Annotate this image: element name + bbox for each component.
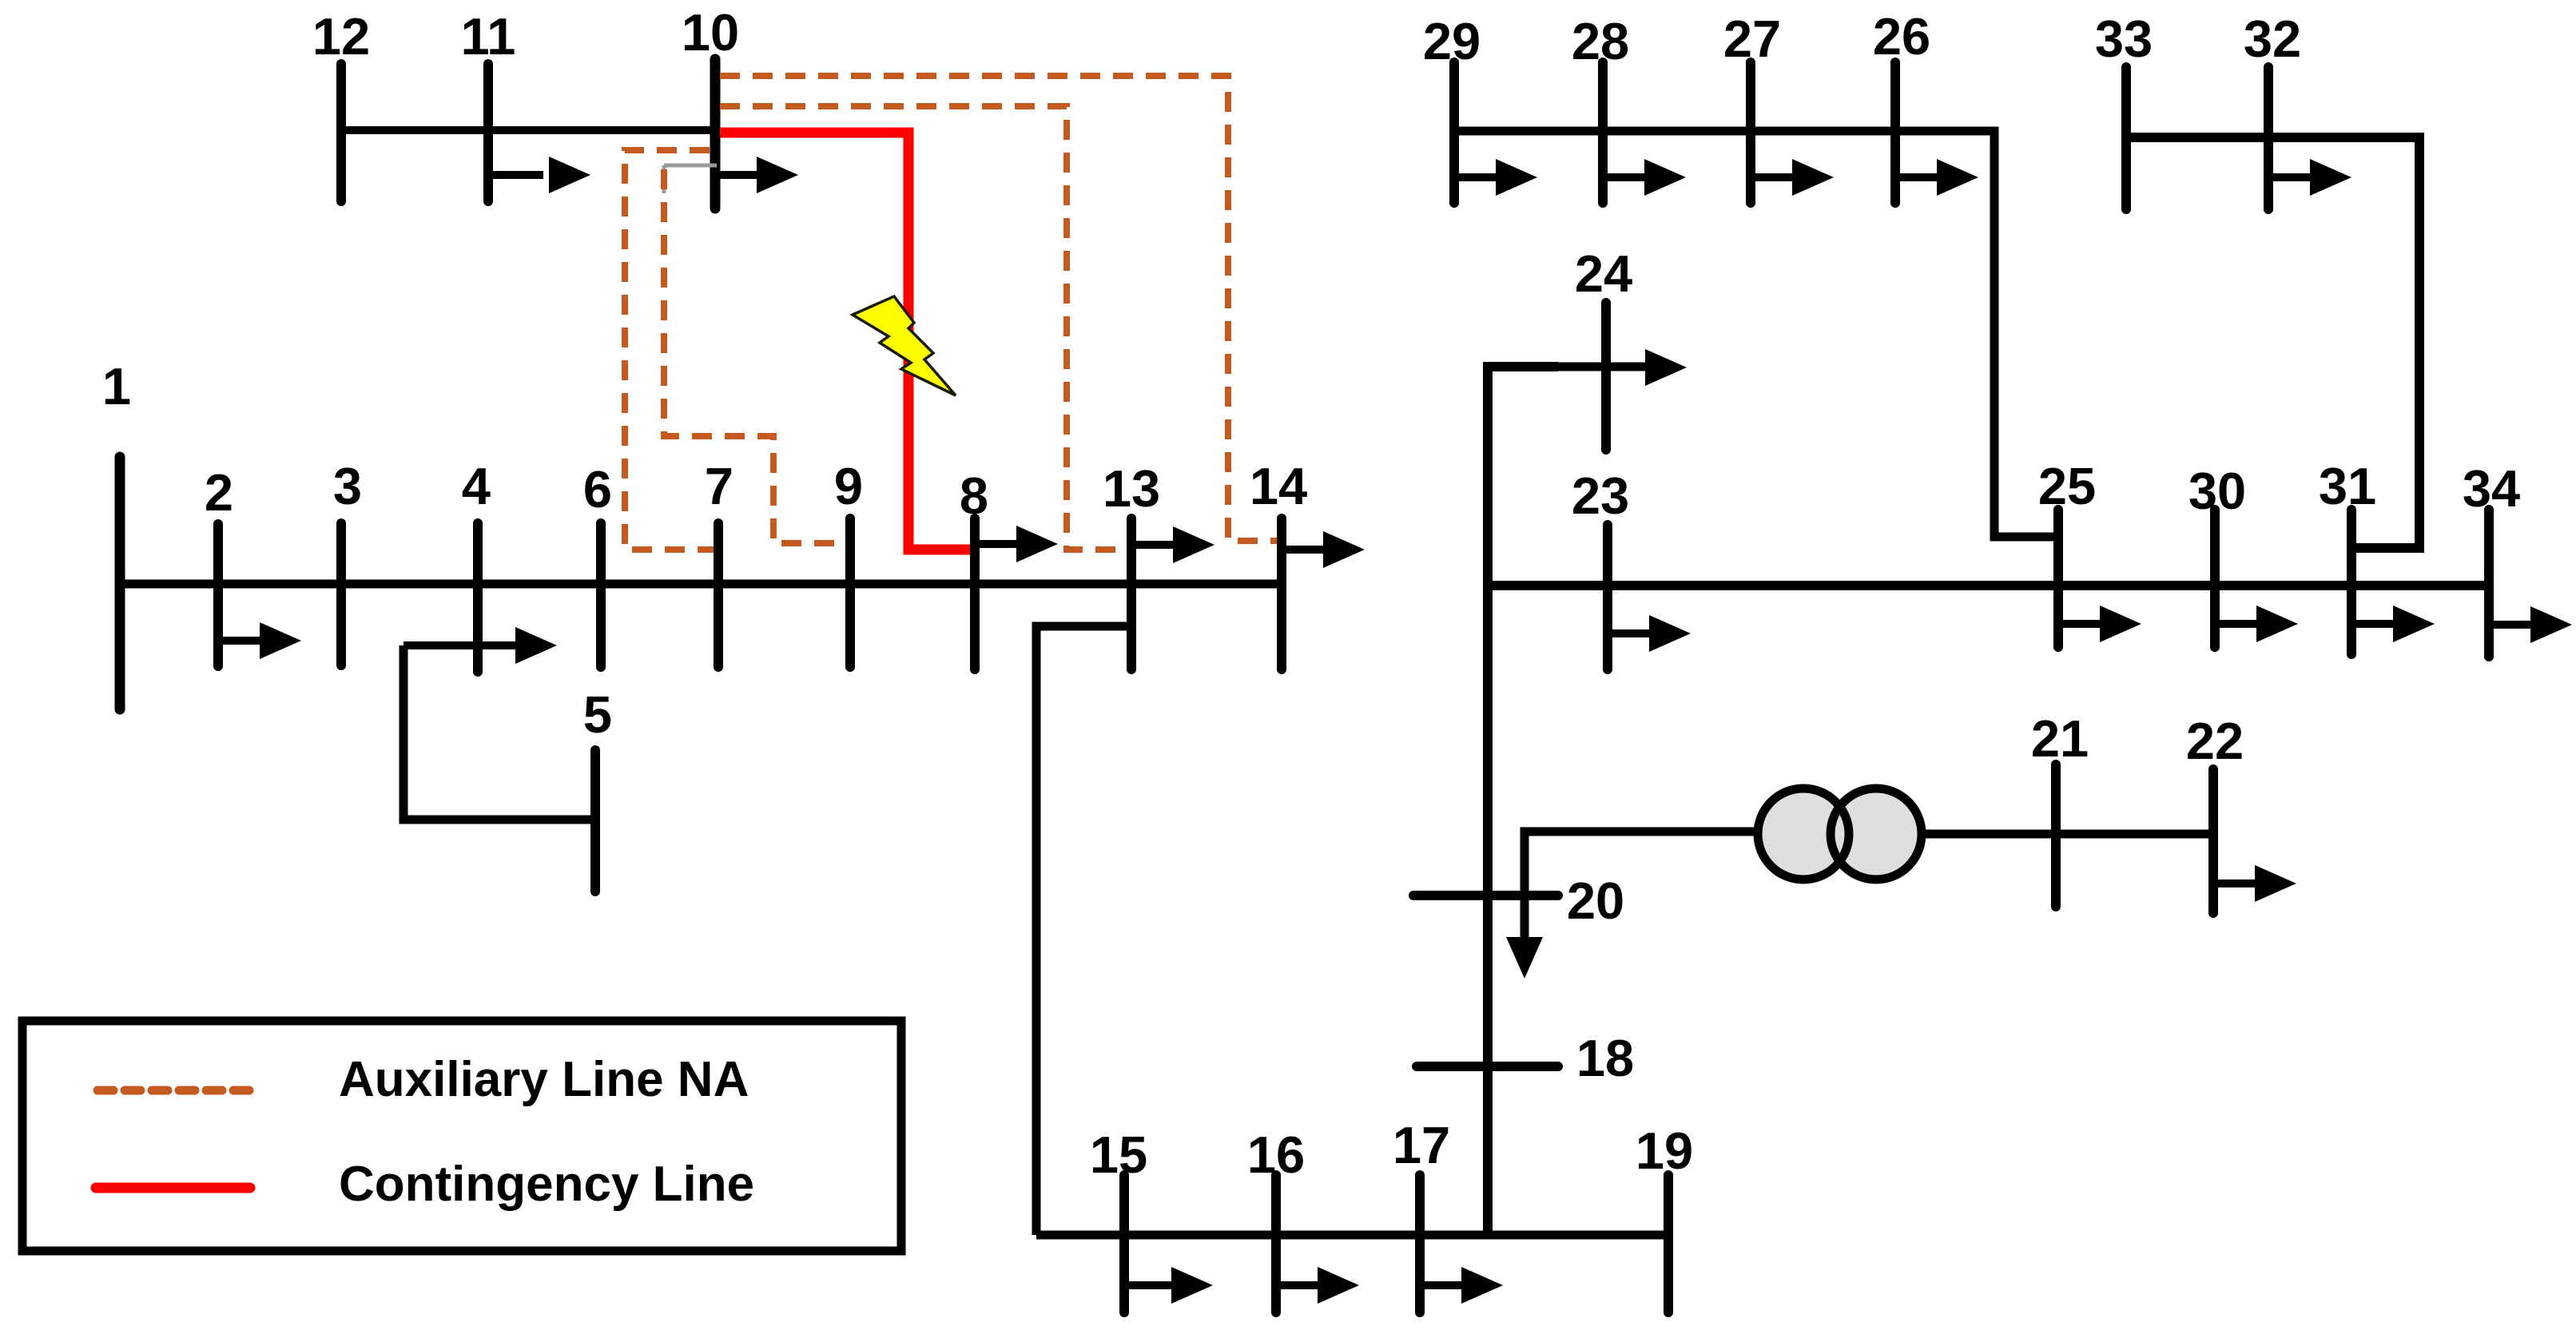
load arrow bus 28 — [1603, 159, 1686, 196]
load arrow bus 30 — [2215, 605, 2298, 642]
load arrow bus 34 — [2489, 606, 2572, 643]
svg-text:Auxiliary Line NA: Auxiliary Line NA — [339, 1052, 749, 1107]
svg-text:13: 13 — [1103, 459, 1160, 518]
riser wire 24-23-17 vertical — [1488, 367, 1558, 1235]
bus 33 — [2121, 67, 2131, 209]
legend auxiliary dashed sample — [97, 1086, 257, 1095]
load arrow bus 14 — [1282, 531, 1365, 568]
svg-text:32: 32 — [2244, 10, 2301, 68]
svg-text:25: 25 — [2038, 457, 2096, 515]
bus 16 — [1271, 1175, 1281, 1312]
load arrow bus 2 — [218, 622, 301, 659]
svg-text:9: 9 — [834, 457, 863, 515]
wire transformer to 21-22 — [1922, 830, 2213, 839]
bus 30 — [2210, 510, 2220, 647]
legend contingency red sample — [96, 1183, 250, 1193]
legend box — [22, 1021, 901, 1251]
svg-text:30: 30 — [2188, 462, 2246, 520]
svg-text:24: 24 — [1575, 244, 1632, 303]
bus 13 — [1127, 518, 1136, 669]
svg-text:29: 29 — [1423, 12, 1481, 70]
svg-text:12: 12 — [312, 7, 370, 66]
bus 10 — [710, 59, 721, 208]
svg-text:2: 2 — [205, 463, 233, 522]
load arrow bus 13 — [1131, 526, 1214, 563]
auxiliary dashed line NA 10-13 (inner) — [720, 106, 1125, 550]
bus 9 — [845, 518, 855, 667]
auxiliary dashed line NA 10-7 — [625, 150, 714, 550]
bus 1 — [115, 457, 125, 709]
load arrow bus 26 — [1895, 159, 1978, 196]
right main bus line 23-34 — [1488, 581, 2489, 590]
svg-text:5: 5 — [583, 685, 612, 744]
load arrow bus 8 — [975, 526, 1058, 562]
load arrow bus 4 with corner — [403, 627, 557, 664]
svg-text:3: 3 — [333, 457, 362, 515]
bus 20 (horizontal bar) — [1413, 891, 1558, 900]
bus 11 — [483, 64, 493, 201]
bus 19 — [1664, 1175, 1673, 1312]
wire bus12-bus11-bus10 top feeder line — [341, 126, 715, 134]
svg-text:11: 11 — [461, 7, 516, 66]
svg-text:1: 1 — [102, 357, 131, 415]
svg-text:23: 23 — [1572, 467, 1629, 525]
bus 31 — [2347, 510, 2356, 654]
load arrow bus 29 — [1454, 159, 1537, 196]
transformer 20-21 circles — [1758, 788, 1922, 879]
svg-text:28: 28 — [1572, 12, 1629, 70]
svg-text:14: 14 — [1250, 457, 1307, 515]
bus 24 — [1601, 303, 1611, 450]
bus 6 — [596, 523, 606, 667]
bus 29 — [1449, 62, 1459, 203]
load arrow bus 23 — [1608, 615, 1691, 652]
bus 32 — [2264, 67, 2273, 209]
bus 3 — [336, 523, 346, 665]
grey artifact near bus 10 — [664, 165, 717, 193]
wire and load arrow bus 24 — [1518, 349, 1687, 386]
bus 12 — [336, 64, 346, 201]
bus 8 — [970, 518, 980, 669]
svg-text:Contingency Line: Contingency Line — [339, 1157, 754, 1212]
svg-text:31: 31 — [2319, 457, 2376, 515]
bus 26 — [1890, 62, 1900, 203]
bus 21 — [2051, 764, 2061, 907]
wire bus29-bus26 top right feeder line — [1454, 131, 2058, 537]
wire 20 to transformer — [1525, 832, 1760, 947]
load arrow bus 15 — [1124, 1267, 1213, 1304]
svg-text:6: 6 — [583, 460, 612, 518]
svg-text:10: 10 — [682, 3, 739, 62]
load arrow bus 22 — [2213, 865, 2296, 902]
bus 28 — [1598, 62, 1608, 203]
svg-text:34: 34 — [2463, 459, 2520, 518]
bus 5 — [590, 750, 600, 891]
bus 23 — [1603, 525, 1612, 669]
wire 4-5 — [403, 645, 595, 820]
svg-text:21: 21 — [2031, 709, 2089, 768]
load arrow bus 31 — [2351, 605, 2435, 642]
auxiliary dashed line NA 10-9 — [664, 169, 845, 543]
svg-text:15: 15 — [1090, 1126, 1147, 1184]
bus 27 — [1746, 62, 1755, 203]
svg-text:17: 17 — [1393, 1116, 1450, 1174]
load arrow bus 10 — [715, 157, 798, 193]
load arrow bus 16 — [1276, 1267, 1359, 1304]
load arrow bus 11 — [488, 157, 590, 193]
main left feeder bus line 1-14 — [120, 580, 1282, 589]
lightning bolt fault symbol — [853, 296, 956, 395]
svg-text:33: 33 — [2095, 10, 2153, 68]
lower feeder bus line 15-19 — [1036, 1231, 1668, 1240]
wire bus33-bus32 line — [2126, 137, 2419, 548]
load arrow bus 17 — [1420, 1267, 1503, 1304]
contingency line 10-8 (red) — [720, 133, 970, 550]
bus 18 (horizontal bar) — [1417, 1062, 1558, 1071]
bus 25 — [2053, 510, 2063, 647]
bus 17 — [1415, 1175, 1425, 1312]
svg-text:19: 19 — [1636, 1122, 1693, 1180]
bus 7 — [714, 523, 723, 667]
bus 4 — [473, 523, 483, 672]
load arrow bus 25 — [2058, 605, 2141, 642]
svg-text:18: 18 — [1576, 1029, 1634, 1087]
bus 14 — [1277, 518, 1286, 669]
bus 22 — [2208, 769, 2218, 913]
load arrow bus 27 — [1751, 159, 1834, 196]
load arrow bus 32 — [2268, 159, 2351, 196]
svg-text:16: 16 — [1247, 1126, 1305, 1184]
down arrow load bus 20 — [1506, 937, 1543, 979]
wire 13 to lower feeder riser — [1036, 626, 1131, 1235]
bus 2 — [213, 524, 223, 666]
svg-text:26: 26 — [1873, 7, 1930, 66]
svg-text:27: 27 — [1723, 10, 1781, 68]
svg-text:4: 4 — [462, 457, 491, 515]
svg-text:8: 8 — [960, 467, 988, 525]
svg-text:7: 7 — [705, 457, 733, 515]
auxiliary dashed line NA 10-14 (outer) — [720, 76, 1277, 541]
bus 34 — [2484, 510, 2494, 657]
svg-text:20: 20 — [1567, 871, 1624, 930]
svg-text:22: 22 — [2186, 712, 2244, 770]
bus 15 — [1119, 1175, 1129, 1312]
